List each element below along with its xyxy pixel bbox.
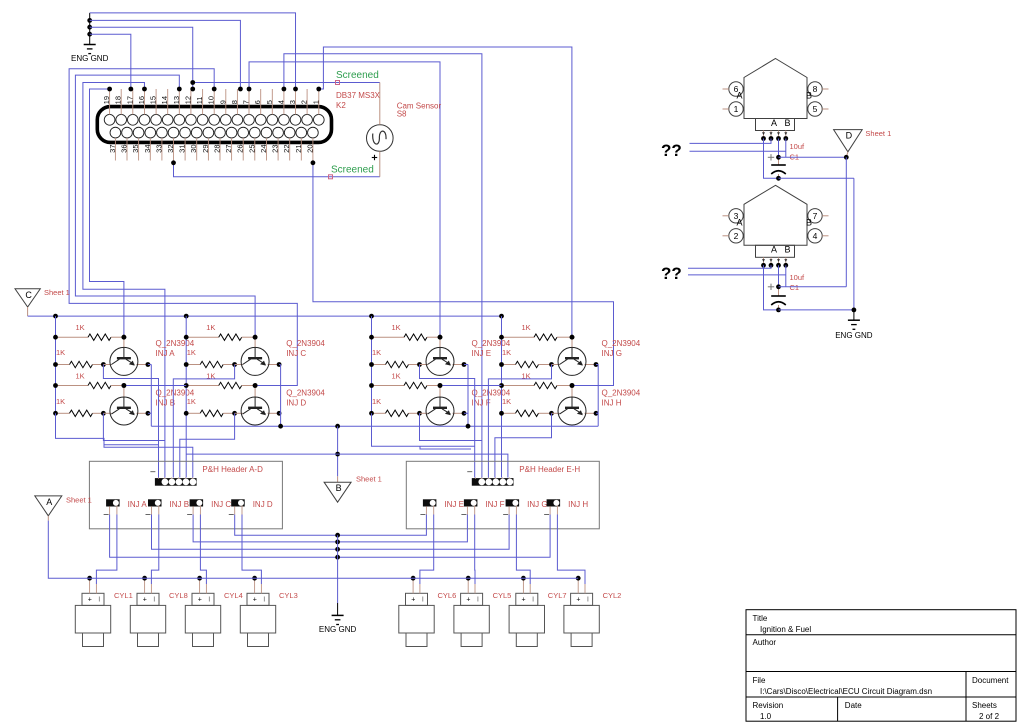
svg-text:Q_2N3904: Q_2N3904 (602, 339, 641, 348)
wire supply rail from sheet C (28, 315, 502, 317)
svg-text:23: 23 (271, 145, 280, 153)
emitter trunk wire (151, 425, 598, 427)
svg-text:8: 8 (230, 100, 239, 104)
ignition coil pack body (pins 3,2,7,4) (744, 185, 807, 245)
svg-text:+: + (253, 597, 257, 604)
wire Q_C collector to header A-D pin3 (173, 365, 234, 478)
svg-text:1K: 1K (392, 372, 401, 381)
node dots pins 32 and 20 (171, 160, 176, 165)
svg-text:INJ D: INJ D (286, 399, 306, 408)
cam sensor lead bottom (379, 151, 381, 177)
svg-text:A: A (771, 118, 777, 128)
connector INJ G (506, 499, 519, 506)
wire coil1 pin B2 to cap-top wire (785, 139, 787, 158)
header symbol P&H Header A-D (155, 478, 197, 486)
wire stair to header A-D pin6 (104, 445, 193, 478)
svg-text:–: – (187, 509, 192, 519)
svg-text:A: A (771, 245, 777, 255)
svg-text:17: 17 (125, 96, 134, 104)
node Q8 emitter (585, 412, 597, 414)
resistor 1K base pull Q4 (186, 385, 219, 387)
svg-text:K2: K2 (336, 101, 346, 110)
wire Q_H collector to header E-H pin4 (495, 413, 552, 477)
node Q3 collector (232, 362, 237, 367)
node dot ground column (335, 547, 340, 552)
node Q4 base (253, 383, 258, 388)
svg-text:1K: 1K (392, 323, 401, 332)
connector K2 bottom pin stubs (115, 138, 313, 161)
node dot on mid cross wire (335, 452, 340, 457)
node junction dots on ENG GND stem (87, 18, 92, 23)
rail junction dots (53, 314, 58, 319)
svg-text:INJ F: INJ F (485, 500, 504, 509)
pin stubs CYL4 (199, 578, 201, 593)
svg-text:INJ A: INJ A (156, 349, 176, 358)
svg-text:Document: Document (972, 676, 1009, 685)
svg-text:CYL8: CYL8 (169, 591, 188, 600)
svg-text:13: 13 (172, 96, 181, 104)
svg-text:11: 11 (195, 97, 204, 105)
wire INJ F to CYL5 (474, 515, 476, 585)
resistor 1K collector Q3 (186, 364, 200, 366)
svg-text:22: 22 (282, 145, 291, 153)
ground ENG GND bottom middle (332, 614, 344, 616)
svg-text:CYL5: CYL5 (493, 591, 512, 600)
svg-text:CYL3: CYL3 (279, 591, 298, 600)
svg-text:37: 37 (108, 145, 117, 153)
svg-text:INJ H: INJ H (602, 399, 622, 408)
svg-text:Revision: Revision (753, 701, 784, 710)
pin stubs CYL1 (89, 578, 91, 593)
wire pin 20 to Q_H base (313, 163, 614, 386)
wire ground trunk down right side (853, 178, 855, 310)
svg-text:B: B (806, 91, 812, 101)
node dots on connected top pins (107, 87, 112, 92)
coil connector pin (785, 257, 787, 265)
wire ENG GND to pin 3 (90, 13, 296, 89)
svg-text:–: – (503, 509, 508, 519)
resistor 1K collector Q8 (502, 412, 516, 414)
svg-text:1K: 1K (76, 372, 85, 381)
svg-text:S8: S8 (397, 110, 407, 119)
svg-text:B: B (784, 245, 790, 255)
wire pin 16 to header A-D (left route) (83, 83, 165, 478)
connector INJ H (547, 499, 561, 506)
svg-text:27: 27 (224, 145, 233, 153)
connector INJ C (190, 499, 204, 506)
wire ENG GND to pin 12 (screen) (90, 27, 193, 89)
svg-text:Sheet 1: Sheet 1 (356, 475, 382, 484)
svg-text:Screened: Screened (331, 164, 374, 175)
svg-text:Title: Title (753, 614, 768, 623)
transistor Q3 (INJ C) (241, 347, 269, 375)
svg-text:1: 1 (311, 100, 320, 104)
svg-text:ENG GND: ENG GND (835, 331, 873, 340)
node Q6 collector (417, 411, 422, 416)
svg-text:A: A (46, 497, 52, 507)
svg-text:Ignition & Fuel: Ignition & Fuel (760, 625, 811, 634)
svg-text:1K: 1K (502, 397, 511, 406)
node Q5 base (438, 335, 443, 340)
block P&H Header E-H outline (406, 461, 599, 529)
svg-text:2: 2 (300, 100, 309, 104)
svg-text:C: C (25, 290, 32, 300)
svg-text:Q_2N3904: Q_2N3904 (286, 339, 325, 348)
coil connector pin (785, 131, 787, 139)
pin stubs CYL8 (144, 578, 146, 593)
title block (746, 610, 1016, 722)
svg-text:26: 26 (236, 145, 245, 153)
svg-text:A: A (736, 217, 742, 227)
wire pin 19 to Q_A base (left route) (90, 89, 124, 336)
wire coil2 pin B2 to cap-top wire (785, 265, 787, 287)
wire ENG GND to pin 17 (90, 34, 131, 89)
svg-text:9: 9 (218, 100, 227, 104)
wire screen top (pin 12) to cam sensor (193, 82, 380, 84)
connector K2 top pin stubs (110, 89, 319, 115)
node Q7 base (570, 335, 575, 340)
svg-text:36: 36 (120, 145, 129, 153)
injector CYL3 (240, 593, 275, 646)
coil connector pin (770, 131, 772, 139)
svg-text:B: B (806, 217, 812, 227)
connector K2 bottom pin numbers (108, 144, 315, 152)
connector INJ E (423, 499, 437, 506)
wire Q_F collector to header E-H pin2 (420, 413, 482, 440)
node Q6 emitter (453, 412, 465, 414)
svg-text:P&H Header E-H: P&H Header E-H (519, 465, 580, 474)
svg-text:29: 29 (201, 145, 210, 153)
svg-text:1K: 1K (187, 397, 196, 406)
node dot CYL7 supply (521, 576, 526, 581)
wire INJ C / INJ F return to ground column (193, 515, 467, 542)
svg-text:25: 25 (247, 144, 256, 152)
svg-text:21: 21 (294, 145, 303, 153)
svg-text:16: 16 (137, 96, 146, 104)
connector DB37 MS3X K2 body (97, 107, 331, 143)
rail vertical EF (371, 316, 373, 413)
wire ground column to ENG GND (337, 535, 339, 603)
transistor Q1 (INJ A) (110, 347, 138, 375)
sheet connector A (35, 496, 62, 516)
resistor 1K collector Q6 (372, 412, 386, 414)
transistor Q8 (INJ H) (558, 397, 586, 425)
connector K2 bottom row pin circles (110, 127, 318, 138)
resistor 1K base pull Q5 (372, 336, 405, 338)
wire pin 7 to Q_E base (249, 62, 440, 336)
wire cap bottom to ground trunk (779, 177, 854, 179)
header pin stubs P&H Header E-H (475, 478, 509, 479)
wire Q_E collector to header E-H pin1 (420, 365, 475, 478)
node dot ground column (335, 540, 340, 545)
svg-text:Date: Date (845, 701, 862, 710)
resistor 1K base pull Q6 (372, 385, 405, 387)
transistor Q4 (INJ D) (241, 397, 269, 425)
resistor 1K base pull Q2 (56, 385, 89, 387)
wire stair to header E-H pin6 aux (420, 446, 471, 449)
wire INJ G to CYL7 (516, 515, 530, 585)
wire INJ C to CYL4 (200, 515, 206, 585)
wire mid cross left segment (186, 453, 337, 455)
svg-text:–: – (104, 509, 109, 519)
svg-text:1K: 1K (372, 397, 381, 406)
resistor 1K collector Q5 (372, 364, 386, 366)
svg-text:4: 4 (813, 231, 818, 241)
injector CYL5 (454, 593, 489, 646)
wire pin 10 to Q_D base (left route) (69, 69, 297, 386)
node Q2 base (122, 383, 127, 388)
connector INJ F (464, 499, 478, 506)
connector K2 top pin numbers (102, 96, 320, 104)
svg-text:Q_2N3904: Q_2N3904 (472, 339, 511, 348)
svg-text:DB37 MS3X: DB37 MS3X (336, 91, 381, 100)
node dots Q_D / Q_H base feed (253, 335, 258, 340)
node dot pin 12 screen junction (190, 80, 195, 85)
lead sheet C to rail (27, 307, 29, 316)
svg-text:5: 5 (265, 100, 274, 104)
svg-text:1K: 1K (187, 348, 196, 357)
wire INJ E to CYL6 (420, 515, 434, 585)
rail tap dots GH (499, 335, 504, 340)
emitter bus E/F (467, 365, 469, 427)
wire Q_A collector to header A-D pin1 (103, 365, 158, 478)
node Q2 collector (101, 411, 106, 416)
coil connector pin (778, 131, 780, 139)
node Q6 base (438, 383, 443, 388)
svg-text:–: – (229, 509, 234, 519)
wire pin 4 to header E-H (284, 54, 482, 478)
coil connector pin (778, 257, 780, 265)
svg-text:10: 10 (207, 96, 216, 104)
svg-text:+: + (576, 597, 580, 604)
svg-text:1K: 1K (206, 323, 215, 332)
connector K2 top row pin circles (104, 114, 324, 125)
coil connector pin (763, 257, 765, 265)
svg-text:33: 33 (154, 145, 163, 153)
svg-text:32: 32 (166, 145, 175, 153)
svg-text:5: 5 (813, 104, 818, 114)
node Q7 collector (549, 362, 554, 367)
rail tap dots CD (184, 335, 189, 340)
sheet connector C (15, 289, 40, 307)
svg-text:Author: Author (753, 638, 777, 647)
node dot ground column (335, 533, 340, 538)
svg-text:INJ D: INJ D (253, 500, 273, 509)
coil pin 7 (808, 209, 822, 223)
svg-text:1K: 1K (76, 323, 85, 332)
wire ENG GND to pin 8 (90, 20, 241, 89)
svg-text:ENG GND: ENG GND (319, 625, 357, 634)
wire sheet A to injector supply bus (48, 521, 578, 579)
svg-text:I:\Cars\Disco\Electrical\ECU C: I:\Cars\Disco\Electrical\ECU Circuit Dia… (760, 687, 932, 696)
node dot CYL2 supply (576, 576, 581, 581)
pin stubs CYL3 (254, 578, 256, 593)
wire INJ B / INJ G return to ground column (152, 515, 510, 550)
resistor 1K collector Q7 (502, 364, 516, 366)
emitter bus G/H (597, 365, 599, 427)
wire cap top to sheet D node (779, 156, 847, 158)
screen tie point top (336, 81, 340, 85)
svg-text:B: B (336, 483, 342, 493)
sheet connector B (324, 482, 351, 502)
svg-text:30: 30 (189, 145, 198, 153)
resistor 1K base pull Q8 (502, 385, 535, 387)
injector CYL8 (130, 593, 165, 646)
node Q3 base (253, 335, 258, 340)
svg-text:1: 1 (734, 104, 739, 114)
svg-text:12: 12 (183, 96, 192, 104)
coil pin 3 (729, 209, 743, 223)
svg-text:2 of 2: 2 of 2 (979, 712, 1000, 721)
svg-text:Sheet 1: Sheet 1 (44, 288, 70, 297)
coil pin 4 (808, 229, 822, 243)
wire Q_B base node to rail (124, 385, 186, 387)
rail tap dots GH (499, 383, 504, 388)
svg-text:14: 14 (160, 96, 169, 104)
svg-text:3: 3 (288, 100, 297, 104)
emitter bus A/B (150, 365, 152, 427)
svg-text:C1: C1 (790, 283, 800, 292)
svg-text:–: – (146, 509, 151, 519)
svg-text:34: 34 (143, 145, 152, 153)
connector INJ B (148, 499, 162, 506)
svg-text:15: 15 (149, 96, 158, 104)
svg-text:1K: 1K (56, 348, 65, 357)
wire sheet D node down to coil2 cap top (845, 157, 847, 286)
rail vertical GH (501, 316, 503, 477)
cam sensor + mark (372, 157, 377, 159)
cam sensor lead top (379, 83, 381, 125)
injector CYL7 (509, 593, 544, 646)
wire ?? to coil1 pin B1 (690, 139, 772, 144)
wire mid cross to header E-H pin6 (338, 454, 508, 477)
coil pin 5 (808, 102, 822, 116)
node Q4 emitter (268, 412, 280, 414)
node Q5 emitter (453, 364, 465, 366)
rail tap dots CD (184, 383, 189, 388)
svg-text:1K: 1K (522, 323, 531, 332)
node Q1 emitter (136, 364, 148, 366)
header symbol P&H Header E-H (472, 478, 514, 486)
svg-text:INJ C: INJ C (286, 349, 306, 358)
wire rail A/B to header A-D pin1 (stair) (56, 413, 159, 444)
node dot CYL8 supply (142, 576, 147, 581)
resistor 1K base pull Q3 (186, 336, 219, 338)
svg-text:B: B (784, 118, 790, 128)
pin stubs CYL7 (522, 578, 524, 593)
injector CYL6 (399, 593, 434, 646)
svg-text:P&H Header A-D: P&H Header A-D (202, 465, 263, 474)
wire coil1 pin A1 down to cap bottom (764, 139, 779, 179)
capacitor C1 (coil1) 10uf (778, 139, 780, 158)
resistor 1K base pull Q7 (502, 336, 535, 338)
ignition coil pack body (pins 6,1,8,5) (744, 59, 807, 119)
node dot CYL1 supply (87, 576, 92, 581)
svg-text:Q_2N3904: Q_2N3904 (156, 339, 195, 348)
pin stubs CYL2 (577, 578, 579, 593)
node Q1 base (122, 335, 127, 340)
lead sheet D to node (846, 152, 848, 158)
svg-text:20: 20 (305, 145, 314, 153)
pin stubs CYL6 (412, 578, 414, 593)
svg-text:CYL4: CYL4 (224, 591, 243, 600)
rail tap dots AB (53, 383, 58, 388)
coil connector pin (770, 257, 772, 265)
svg-text:Q_2N3904: Q_2N3904 (286, 389, 325, 398)
svg-text:Sheet 1: Sheet 1 (66, 496, 92, 505)
resistor 1K collector Q1 (56, 364, 70, 366)
ground ENG GND right (853, 310, 855, 320)
svg-text:10uf: 10uf (790, 142, 806, 151)
node dot ground column (335, 555, 340, 560)
injector CYL4 (185, 593, 220, 646)
wire rail E/F to header E-H pin1 (stair) (372, 413, 475, 446)
rail vertical CD (185, 316, 187, 477)
injector CYL2 (564, 593, 599, 646)
wire INJ A / INJ H return to ground column (110, 515, 550, 558)
node Q4 collector (232, 411, 237, 416)
svg-text:CYL2: CYL2 (603, 591, 622, 600)
rail tap dots EF (369, 383, 374, 388)
pin stubs CYL5 (467, 578, 469, 593)
wire screen bottom (pin 32) to cam sensor (174, 163, 380, 177)
lead sheet A (47, 516, 49, 521)
coil connector pin (763, 131, 765, 139)
rail tap dots AB (53, 335, 58, 340)
svg-text:1K: 1K (56, 397, 65, 406)
svg-text:18: 18 (114, 96, 123, 104)
wire INJ A to CYL1 (96, 515, 117, 585)
wire pin 13 to Q_C base (left route) (75, 75, 255, 335)
svg-text:CYL7: CYL7 (548, 591, 567, 600)
transistor Q5 (INJ E) (426, 347, 454, 375)
svg-text:A: A (736, 91, 742, 101)
svg-text:Sheets: Sheets (972, 701, 997, 710)
svg-text:+: + (88, 597, 92, 604)
svg-text:–: – (150, 466, 155, 476)
svg-text:+: + (411, 597, 415, 604)
wire INJ D / INJ E return to ground column (235, 515, 427, 536)
wire ?? to coil2 pin B1 (688, 265, 771, 268)
svg-text:7: 7 (813, 211, 818, 221)
wire INJ D to CYL3 (242, 515, 261, 585)
svg-text:–: – (467, 466, 472, 476)
svg-text:??: ?? (661, 264, 682, 283)
wire INJ B to CYL8 (151, 515, 158, 585)
svg-text:Q_2N3904: Q_2N3904 (602, 389, 641, 398)
svg-text:8: 8 (813, 84, 818, 94)
wire ?? to coil2 pin B2 (688, 274, 786, 276)
header pin stubs P&H Header A-D (159, 478, 193, 479)
svg-text:19: 19 (102, 96, 111, 104)
wire pin 1 to Q_G base (319, 47, 572, 336)
svg-text:CYL1: CYL1 (114, 591, 133, 600)
node Q8 collector (549, 411, 554, 416)
wire Q_F base node to rail (440, 385, 501, 387)
svg-text:File: File (753, 676, 766, 685)
node Q5 collector (417, 362, 422, 367)
coil pin 6 (729, 82, 743, 96)
node Q7 emitter (585, 364, 597, 366)
svg-text:CYL6: CYL6 (438, 591, 457, 600)
wire Q_B collector to header A-D pin2 (103, 413, 164, 440)
svg-text:2: 2 (734, 231, 739, 241)
wire ?? to coil1 pin B2 (690, 150, 786, 152)
node Q3 emitter (268, 364, 280, 366)
svg-text:Screened: Screened (336, 70, 379, 81)
wire coil2 pin A1 down to cap bottom (764, 265, 779, 310)
svg-text:INJ H: INJ H (568, 500, 588, 509)
